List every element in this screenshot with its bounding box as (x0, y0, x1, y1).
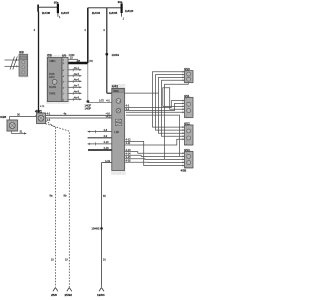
svg-text:10/49: 10/49 (112, 53, 120, 57)
amplifier 4/43 (112, 85, 125, 171)
wire relay to amplifier row 1 (46, 112, 112, 122)
svg-text:4/5B: 4/5B (181, 169, 187, 173)
wire speaker1 pin1 to speaker3 pin1 (153, 72, 185, 127)
wire speaker2 pin5 run (126, 111, 185, 113)
svg-text:4-9: 4-9 (104, 135, 108, 138)
svg-text:P/I: P/I (90, 59, 93, 63)
radio pin row top (68, 56, 78, 59)
fuse bar 11/C20 (121, 3, 123, 13)
svg-text:4-19: 4-19 (105, 160, 111, 163)
label 11/C20 (125, 9, 134, 13)
svg-text:4a-8: 4a-8 (74, 90, 80, 93)
radio pin row 3 (68, 78, 82, 83)
svg-text:8/8: 8/8 (19, 51, 24, 55)
wire top-right corner horizontal (88, 7, 122, 9)
svg-text:4a-7: 4a-7 (74, 84, 80, 87)
wire amp b2 to speaker3 pin5 (125, 139, 185, 145)
svg-text:6/8: 6/8 (47, 53, 52, 57)
svg-text:6/28: 6/28 (0, 115, 6, 119)
microphone unit 8/8 (19, 51, 28, 77)
svg-text:25/90: 25/90 (65, 293, 73, 297)
speaker pin arrowheads (183, 71, 185, 167)
svg-text:11/C20: 11/C20 (125, 9, 134, 13)
svg-text:4-16: 4-16 (126, 160, 132, 163)
svg-text:14/5F: 14/5F (85, 107, 92, 111)
wire speaker1 pin2 to speaker3 pin2 (156, 75, 185, 131)
wire 30 relay to phone (10, 113, 37, 120)
wire speaker1 pin4 to speaker3 pin4 (162, 80, 185, 136)
ground 25/8 (51, 288, 58, 298)
wire elbow into amplifier (107, 92, 112, 94)
wire amp b1 to speaker4 pin5 (125, 139, 185, 166)
radio pin row 5 (68, 90, 82, 95)
wire amp to speaker2 pin2 (125, 103, 185, 110)
svg-text:4-13: 4-13 (126, 149, 132, 152)
label 11/C04 (92, 11, 101, 15)
splice node 10/49 (105, 53, 119, 57)
svg-text:+4.0: +4.0 (106, 116, 112, 119)
fuse bar 11/C07 (57, 4, 59, 13)
wire feed to radio (thick vertical) (84, 8, 88, 63)
label 30+ right (118, 0, 123, 4)
radio pin row 2 (68, 73, 82, 78)
svg-text:11/C04: 11/C04 (92, 11, 101, 15)
ground 25/90 (65, 288, 73, 298)
label 11/C08 (42, 11, 51, 15)
label 30+ left (54, 0, 59, 4)
svg-text:4-2: 4-2 (126, 108, 130, 111)
wire ground drop from power corner (87, 63, 89, 101)
svg-text:4-8: 4-8 (104, 129, 108, 132)
svg-text:30a: 30a (118, 0, 123, 4)
wire radio power horizontal (68, 59, 93, 63)
svg-text:25/8: 25/8 (51, 293, 57, 297)
amplifier left pin row D thick (88, 147, 112, 150)
svg-text:11/C05: 11/C05 (109, 11, 118, 15)
wire speaker1 bottom pin down (165, 83, 189, 160)
label 11/C05 (109, 11, 118, 15)
svg-text:30a: 30a (54, 0, 59, 4)
speaker 16/11 (184, 94, 193, 118)
svg-text:19/84: 19/84 (97, 293, 105, 297)
ground 19/84 (97, 288, 105, 298)
pin 1 stub below bar C07 (58, 13, 61, 19)
svg-text:4a-9: 4a-9 (74, 96, 80, 99)
svg-text:4-10: 4-10 (104, 141, 110, 144)
block texture overlays (7, 55, 193, 171)
radio unit 6/8 (47, 53, 62, 101)
radio pin row 4 (68, 84, 82, 89)
svg-text:6/10: 6/10 (184, 67, 190, 71)
svg-text:6/9: 6/9 (62, 53, 67, 57)
amplifier left pin row C (88, 141, 112, 145)
speaker 16/13 (181, 148, 194, 173)
wire speaker2 pin6 run (126, 115, 180, 156)
wire feed to amplifier vertical (103, 8, 107, 93)
svg-text:11/C07: 11/C07 (61, 11, 70, 15)
phone unit 6/28 (0, 115, 17, 131)
wire splice to amplifier (88, 99, 112, 102)
speaker 16/10 (184, 67, 193, 83)
amplifier left pin row B (88, 135, 112, 138)
pin 1 stub below bar C20 (122, 13, 125, 21)
wire amp c1 to speaker4 pin1 (125, 149, 185, 154)
wire amp c2 to speaker4 pin2 (125, 152, 185, 156)
radio pin row 6 (68, 96, 82, 101)
svg-text:0.75: 0.75 (99, 99, 104, 102)
wire amp aux to bus (125, 92, 159, 94)
wire bridge speaker2 pin3 pin4 (163, 88, 185, 109)
splice 14/2F (85, 100, 92, 110)
wire feed left vertical to relay (34, 12, 46, 114)
svg-text:31-1: 31-1 (74, 67, 80, 70)
wire fuse link left (38, 6, 57, 8)
relay 4/31 (35, 109, 47, 123)
dashed wire 2 to ground 25/90 (46, 124, 70, 287)
wire amplifier ground down (92, 160, 112, 287)
svg-text:4a-5: 4a-5 (74, 73, 80, 76)
svg-text:10/48S: 10/48S (92, 228, 100, 231)
radio pin row arrows (68, 67, 82, 72)
svg-text:4a-6: 4a-6 (74, 78, 80, 81)
wire speaker1 pin3 to speaker3 pin3 (159, 77, 185, 133)
wire amp to speaker2 pin1 (125, 101, 185, 108)
svg-text:4-11: 4-11 (126, 142, 131, 145)
fuse bar 11/C08 (37, 5, 39, 12)
label 11/C07 (61, 11, 70, 15)
svg-text:4-1: 4-1 (47, 113, 51, 116)
amplifier left pin row A (88, 129, 112, 133)
svg-text:4-12: 4-12 (126, 139, 132, 142)
dashed wire 1 to ground 25/8 (46, 121, 56, 287)
svg-text:4-14: 4-14 (126, 152, 132, 155)
wire mic pair (5, 57, 20, 70)
wire 31 phone bottom (11, 130, 26, 135)
svg-text:4-18: 4-18 (104, 147, 110, 150)
svg-text:11/C08: 11/C08 (42, 11, 51, 15)
wire amp c3 to speaker4 pin3 (125, 156, 185, 159)
wire amp c4 to speaker4 pin4 (125, 160, 185, 163)
speaker 16/12 (184, 122, 193, 145)
wire relay to amplifier row 2 (46, 116, 112, 119)
svg-text:4-5: 4-5 (47, 119, 51, 122)
radio connector pin column 6/9 (62, 53, 75, 101)
